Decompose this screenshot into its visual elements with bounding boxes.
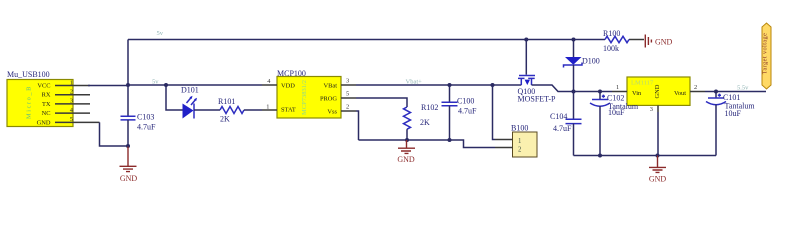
pin 1 STAT stub xyxy=(262,103,277,110)
wire VBat rail xyxy=(356,84,521,86)
pin 1 VCC xyxy=(55,79,90,86)
node junction 526.3,40 xyxy=(524,38,528,42)
svg-text:C104: C104 xyxy=(550,112,567,121)
power GND (rotated) xyxy=(645,35,672,48)
capacitor C100 xyxy=(442,85,478,140)
pin 2 RX xyxy=(55,89,90,96)
connector B100 xyxy=(511,124,537,158)
node junction 600,91.5 xyxy=(598,90,602,94)
svg-text:STAT: STAT xyxy=(281,107,296,114)
wire Vout xyxy=(705,91,766,93)
node junction 573.5,91.5 xyxy=(572,90,576,94)
wire 5v riser xyxy=(127,40,129,86)
node junction 573.5,40 xyxy=(572,38,576,42)
pin 2 Vss stub xyxy=(341,104,356,112)
svg-text:RX: RX xyxy=(42,92,51,99)
svg-text:Vin: Vin xyxy=(632,90,642,97)
svg-text:1: 1 xyxy=(70,79,73,86)
svg-text:Micro_B: Micro_B xyxy=(26,85,33,119)
svg-text:VDD: VDD xyxy=(281,83,295,90)
IC U MCP100 xyxy=(277,69,341,118)
wire R102 down xyxy=(406,129,408,140)
node junction 657,155.5 xyxy=(656,154,660,158)
capacitor C103 xyxy=(121,85,157,146)
svg-text:LM1117: LM1117 xyxy=(631,80,654,87)
svg-text:R100: R100 xyxy=(603,29,620,38)
wire gate xyxy=(525,40,527,75)
pin 3 TX xyxy=(55,98,90,105)
svg-text:2: 2 xyxy=(694,84,697,91)
resistor R100 xyxy=(603,29,644,53)
pin 3 VBat stub xyxy=(341,78,356,86)
wire LED to R101 xyxy=(194,109,220,111)
resistor R101 xyxy=(218,97,244,124)
wire Vss down xyxy=(356,111,359,140)
svg-text:5v: 5v xyxy=(157,30,164,37)
diode D100 schottky xyxy=(564,40,600,92)
svg-text:1: 1 xyxy=(266,103,269,110)
svg-text:GND: GND xyxy=(655,38,673,47)
svg-text:MOSFET-P: MOSFET-P xyxy=(518,95,556,104)
svg-text:1: 1 xyxy=(518,138,521,145)
svg-text:Mu_USB100: Mu_USB100 xyxy=(7,70,50,79)
wire drain diagonal xyxy=(532,85,613,92)
svg-text:R101: R101 xyxy=(218,97,235,106)
svg-text:10uF: 10uF xyxy=(725,109,742,118)
svg-text:C103: C103 xyxy=(137,113,154,122)
svg-text:2: 2 xyxy=(346,104,349,111)
svg-text:Vss: Vss xyxy=(327,109,337,116)
node junction 600,155.5 xyxy=(598,154,602,158)
pin 3 GND stub xyxy=(650,105,658,113)
connector J Mu_USB100 xyxy=(7,70,73,127)
wire LDO gnd down xyxy=(657,112,659,156)
capacitor C101 tantalum xyxy=(706,92,755,156)
svg-text:GND: GND xyxy=(654,84,661,98)
svg-text:2: 2 xyxy=(70,89,73,96)
wire GND pin down xyxy=(100,122,129,146)
svg-text:10uF: 10uF xyxy=(608,108,625,117)
svg-text:PROG: PROG xyxy=(320,96,337,103)
svg-text:2K: 2K xyxy=(420,118,430,127)
svg-text:5: 5 xyxy=(70,116,73,123)
svg-text:2K: 2K xyxy=(220,115,230,124)
svg-text:2: 2 xyxy=(518,146,522,153)
pin 2 B100 stub xyxy=(495,147,513,149)
node junction 449.5,85 xyxy=(448,83,452,87)
pin 1 B100 stub xyxy=(495,139,513,141)
node junction 128,145 xyxy=(126,144,130,148)
svg-text:5.5v: 5.5v xyxy=(737,85,749,92)
svg-text:D101: D101 xyxy=(181,86,199,95)
node junction 128,85 xyxy=(126,83,130,87)
wire VCC to MCP100 VDD xyxy=(88,84,262,87)
ground GND (USB) xyxy=(120,147,138,184)
node junction 492.5,85 xyxy=(491,83,495,87)
node junction 407,140 xyxy=(405,138,409,142)
node junction 716,91.5 xyxy=(714,90,718,94)
svg-text:4.7uF: 4.7uF xyxy=(458,106,477,115)
svg-text:C100: C100 xyxy=(457,96,474,105)
wire top 5v rail xyxy=(128,39,605,41)
wire PROG to R102 xyxy=(356,98,407,107)
pin 2 Vout stub xyxy=(690,84,705,92)
svg-text:4.7uF: 4.7uF xyxy=(137,123,156,132)
svg-text:4.7uF: 4.7uF xyxy=(553,124,572,133)
svg-text:VCC: VCC xyxy=(37,83,50,90)
svg-text:TX: TX xyxy=(42,101,51,108)
wire R101 to STAT xyxy=(244,109,262,111)
pin 5 PROG stub xyxy=(341,91,356,99)
svg-text:GND: GND xyxy=(37,119,51,126)
svg-text:1: 1 xyxy=(616,84,619,91)
svg-text:100k: 100k xyxy=(603,44,619,53)
svg-text:3: 3 xyxy=(650,106,653,113)
wire bottom rail xyxy=(574,155,717,157)
LED D101 xyxy=(181,86,199,119)
pin 4 NC xyxy=(55,107,90,114)
svg-text:5: 5 xyxy=(346,91,349,98)
pin 5 GND xyxy=(55,116,100,123)
svg-text:Vout: Vout xyxy=(674,90,686,97)
svg-text:GND: GND xyxy=(397,155,415,164)
wire ground rail xyxy=(359,140,496,148)
ground GND (charger) xyxy=(397,140,415,164)
svg-text:Vbat+: Vbat+ xyxy=(406,78,423,85)
svg-text:NC: NC xyxy=(42,110,51,117)
wire B100 pin1 drop xyxy=(493,85,496,140)
resistor R102 xyxy=(404,103,439,129)
svg-text:3: 3 xyxy=(70,98,73,105)
ground GND (output) xyxy=(649,156,667,184)
svg-text:B100: B100 xyxy=(511,124,528,133)
regulator U LM1117 xyxy=(627,77,690,105)
svg-text:D100: D100 xyxy=(582,57,600,66)
svg-text:MCP73831/2: MCP73831/2 xyxy=(301,80,308,115)
pin 4 VDD stub xyxy=(262,78,277,85)
svg-text:Target voltage: Target voltage xyxy=(762,33,769,75)
svg-text:GND: GND xyxy=(120,174,138,183)
svg-text:GND: GND xyxy=(649,174,667,183)
svg-text:5v: 5v xyxy=(152,78,159,85)
pin 1 Vin stub xyxy=(612,84,627,92)
svg-text:VBat: VBat xyxy=(324,83,338,90)
svg-text:3: 3 xyxy=(346,78,349,85)
node junction 449.5,140 xyxy=(448,138,452,142)
capacitor C102 tantalum xyxy=(590,92,639,156)
node junction 166,85 xyxy=(164,83,168,87)
port Target voltage xyxy=(762,23,772,89)
wire to D101 xyxy=(166,85,183,110)
capacitor C104 xyxy=(550,92,582,156)
svg-text:R102: R102 xyxy=(421,103,438,112)
transistor Q100 MOSFET-P xyxy=(518,76,556,104)
